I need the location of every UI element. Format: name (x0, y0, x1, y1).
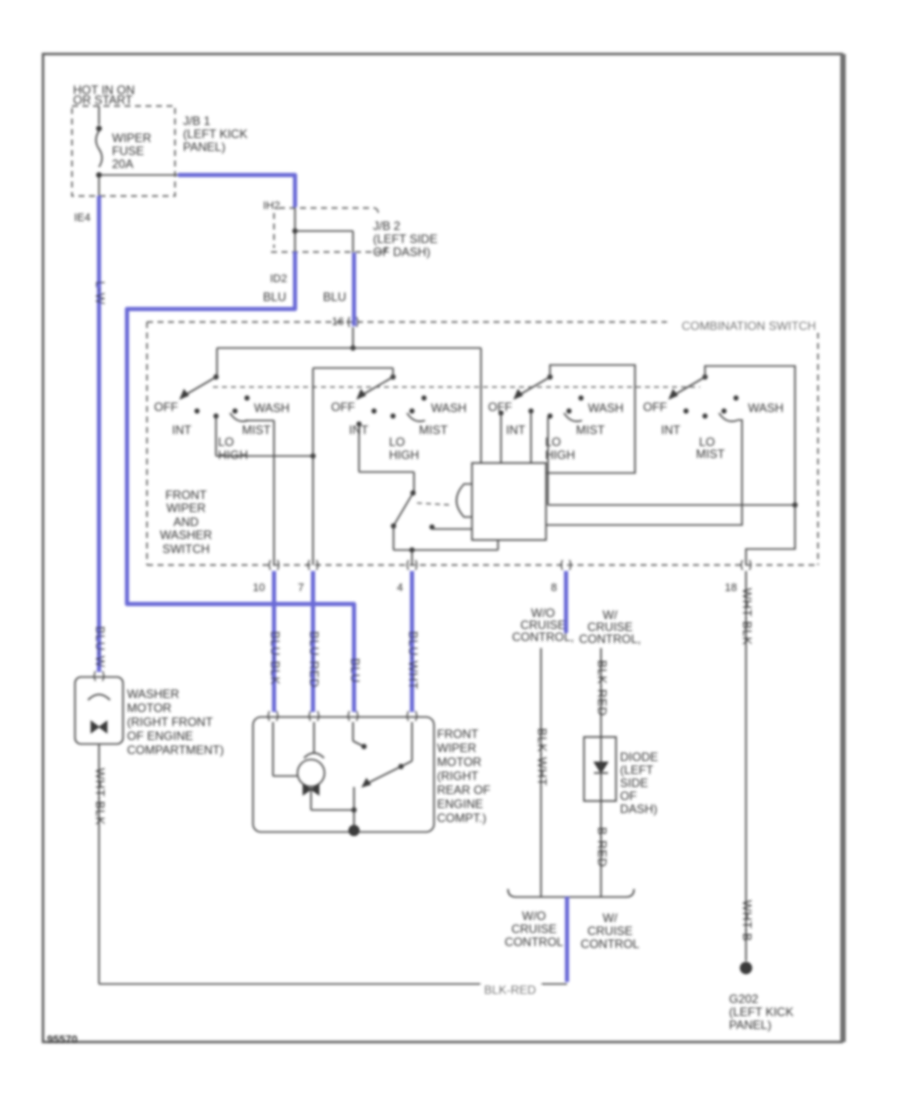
svg-text:4: 4 (397, 582, 403, 594)
svg-text:OF DASH): OF DASH) (373, 245, 430, 259)
park switch arm (366, 767, 401, 785)
contact SW2 arm lower (356, 421, 361, 426)
svg-text:BLU-BLK: BLU-BLK (268, 631, 282, 685)
svg-text:10: 10 (253, 582, 265, 594)
wash wiper arc SW4 washer gang (719, 413, 737, 421)
washer motor box (75, 677, 123, 744)
svg-text:8: 8 (551, 582, 557, 594)
svg-text:OF ENGINE: OF ENGINE (127, 729, 193, 743)
node pivot SW4 washer gang (702, 374, 707, 379)
wire BLU J/B2 to wiper motor +2 (127, 252, 354, 712)
svg-text:B-RED: B-RED (595, 827, 609, 867)
dashed actuator link (417, 503, 452, 505)
wire diode to merge (600, 801, 602, 897)
contact INT SW1 wiper gang 1 (194, 408, 199, 413)
wire BLU pin10 to washer pump contact (272, 571, 276, 712)
wire SW3 to relay top b (530, 411, 532, 463)
svg-text:OR START: OR START (73, 93, 133, 107)
wire +1 vertical to pin 7 (312, 368, 314, 565)
svg-text:18: 18 (725, 582, 737, 594)
svg-text:(LEFT KICK: (LEFT KICK (183, 127, 247, 141)
intermittent wiper relay box (472, 463, 546, 540)
connector wiper motor pin (348, 711, 358, 721)
svg-text:ENGINE: ENGINE (437, 797, 483, 811)
svg-text:WASHER: WASHER (160, 528, 213, 542)
svg-text:WASH: WASH (254, 401, 290, 415)
wire SW4 wash to relay (546, 420, 742, 525)
svg-text:L-W: L-W (93, 281, 107, 305)
combination switch dashed box (147, 321, 818, 323)
node feed (350, 345, 355, 350)
contact INT SW2 wiper gang 2 (371, 408, 376, 413)
connector wiper motor pin (268, 711, 278, 721)
svg-text:CRUISE: CRUISE (587, 924, 632, 938)
contact HIGH SW1 wiper gang 1 (232, 408, 237, 413)
wire SW3 to relay top a (500, 413, 502, 463)
svg-text:HIGH: HIGH (389, 448, 419, 462)
wire BLU pin8 stub (564, 571, 568, 633)
washer pump arc (88, 695, 110, 701)
svg-text:HIGH: HIGH (545, 448, 575, 462)
wire feed link to SW2 (313, 367, 393, 369)
svg-text:LO: LO (218, 435, 234, 449)
svg-text:MOTOR: MOTOR (127, 701, 172, 715)
front wiper motor box (253, 717, 434, 832)
switch arm SW3 wiper gang 3 (520, 377, 550, 395)
svg-text:MOTOR: MOTOR (437, 755, 482, 769)
svg-text:BLK-WHT: BLK-WHT (535, 728, 549, 786)
wire SW3 center contact to washer feed bus (547, 417, 549, 505)
node relay switch pivot (410, 490, 415, 495)
svg-text:CONTROL: CONTROL (581, 937, 640, 951)
svg-text:PANEL): PANEL) (729, 1018, 771, 1032)
svg-text:IH2: IH2 (263, 200, 280, 212)
svg-text:7: 7 (298, 582, 304, 594)
wire LO to +1 line (216, 455, 313, 457)
node motor ground junction (351, 807, 356, 812)
svg-text:BLK-RED: BLK-RED (595, 660, 609, 716)
svg-text:J/B 1: J/B 1 (183, 114, 211, 128)
svg-text:SWITCH: SWITCH (162, 542, 209, 556)
svg-text:FRONT: FRONT (165, 488, 207, 502)
wiper motor internals (272, 722, 274, 776)
svg-text:LO: LO (389, 435, 405, 449)
contact LO SW1 wiper gang 1 (213, 413, 218, 418)
svg-text:CONTROL,: CONTROL, (512, 630, 574, 644)
svg-text:COMPT.): COMPT.) (437, 811, 486, 825)
svg-text:MIST: MIST (696, 447, 725, 461)
wire w/o cruise path (540, 648, 542, 897)
node park pivot (398, 764, 403, 769)
arrowhead SW1 wiper gang 1 (180, 390, 189, 400)
wire pin18 to ground (745, 571, 747, 961)
svg-text:ID2: ID2 (270, 273, 287, 285)
svg-text:CRUISE: CRUISE (511, 922, 556, 936)
contact HIGH SW3 wiper gang 3 (566, 408, 571, 413)
relay cam symbol (457, 484, 473, 517)
svg-text:95570: 95570 (47, 1034, 78, 1046)
svg-text:DASH): DASH) (620, 802, 657, 816)
wire w/ cruise to diode (600, 648, 602, 737)
connector washer motor (94, 671, 104, 681)
svg-text:BLU: BLU (348, 658, 362, 683)
connector wiper motor pin (309, 711, 319, 721)
wire BLU J/B2 to combination switch 16 (352, 253, 356, 326)
arrowhead SW2 wiper gang 2 (357, 390, 366, 400)
svg-text:WIPER: WIPER (437, 741, 477, 755)
node pin 4 tap (409, 547, 414, 552)
svg-text:J/B 2: J/B 2 (373, 219, 401, 233)
diode box (584, 737, 616, 801)
svg-text:(LEFT: (LEFT (620, 763, 654, 777)
wire SW1 wash arc to pin 10 (245, 420, 274, 422)
svg-text:COMPARTMENT): COMPARTMENT) (127, 743, 224, 757)
svg-text:INT: INT (661, 423, 681, 437)
merge bracket (508, 889, 634, 897)
node pivot SW3 wiper gang 3 (547, 374, 552, 379)
svg-text:REAR OF: REAR OF (437, 783, 490, 797)
connector pin 8 (561, 560, 571, 570)
wire washer motor return (98, 744, 100, 984)
wire BLU pin7 to wiper motor +1 (311, 571, 315, 712)
connector wiper motor pin (407, 711, 417, 721)
svg-text:20A: 20A (112, 157, 133, 171)
node pivot SW2 wiper gang 2 (390, 374, 395, 379)
contact LO SW3 wiper gang 3 (547, 413, 552, 418)
wire washer return bottom run (99, 983, 567, 985)
svg-text:(LEFT KICK: (LEFT KICK (729, 1005, 793, 1019)
park arm arrowhead (362, 779, 371, 788)
junction block 2 dashed lines (279, 207, 375, 209)
contact WASH SW4 washer gang (733, 395, 738, 400)
node J/B2 split (292, 228, 297, 233)
J/B2 internal wires (294, 207, 296, 252)
svg-text:AND: AND (173, 515, 199, 529)
ground case terminal (348, 825, 359, 836)
svg-text:16: 16 (332, 316, 344, 328)
contact relay switch (391, 523, 396, 528)
svg-text:IE4: IE4 (74, 212, 91, 224)
svg-text:OFF: OFF (154, 400, 178, 414)
contact WASH SW3 wiper gang 3 (578, 395, 583, 400)
svg-text:OFF: OFF (643, 400, 667, 414)
svg-text:HIGH: HIGH (218, 448, 248, 462)
arrowhead SW3 wiper gang 3 (514, 390, 523, 400)
svg-text:INT: INT (506, 423, 526, 437)
switch arm SW4 washer gang (675, 377, 705, 395)
wire SW4 feed loop (705, 366, 795, 565)
arrowhead SW4 washer gang (669, 390, 678, 400)
contact INT SW4 washer gang (683, 408, 688, 413)
svg-text:WIPER: WIPER (112, 131, 152, 145)
wire fuse to J/B1 right side (102, 174, 178, 176)
svg-text:MIST: MIST (419, 423, 448, 437)
svg-text:MIST: MIST (576, 423, 605, 437)
relay switch arm (394, 493, 413, 525)
svg-text:WASH: WASH (588, 401, 624, 415)
switch arm SW1 wiper gang 1 (186, 377, 216, 395)
contact relay fixed (429, 524, 434, 529)
motor symbol (303, 784, 319, 795)
wash wiper arc SW1 wiper gang 1 (230, 413, 248, 421)
svg-text:WASH: WASH (431, 401, 467, 415)
contact LO SW4 washer gang (702, 413, 707, 418)
svg-text:INT: INT (172, 423, 192, 437)
wire feed to relay (480, 348, 482, 463)
wire BLU merged washer return (565, 897, 569, 982)
svg-text:BLU-WHT: BLU-WHT (406, 631, 420, 690)
wire relay switch to relay (394, 549, 499, 551)
svg-text:BLU-W: BLU-W (93, 626, 107, 668)
page frame border (43, 54, 842, 1042)
connector terminal 16 (348, 317, 358, 327)
wire BLU fuse to washer motor (97, 196, 101, 672)
washer motor symbol (91, 721, 107, 733)
diode symbol (594, 762, 608, 773)
wire BLU pin4 to wiper motor S (410, 571, 414, 712)
connector pin 10 (269, 560, 279, 570)
svg-text:(RIGHT FRONT: (RIGHT FRONT (127, 715, 213, 729)
contact INT SW3 wiper gang 3 (528, 408, 533, 413)
wire SW1 LO contact down (215, 416, 217, 456)
node washer feed (792, 502, 797, 507)
svg-text:CONTROL: CONTROL (505, 935, 564, 949)
wire feed to switch 1 (216, 348, 218, 377)
svg-text:OFF: OFF (331, 400, 355, 414)
svg-text:WHT-BLK: WHT-BLK (740, 588, 754, 646)
svg-text:SIDE: SIDE (620, 776, 648, 790)
ground G202 (740, 962, 752, 974)
connector pin 18 (741, 560, 751, 570)
svg-text:OF: OF (620, 789, 637, 803)
svg-text:FUSE: FUSE (112, 144, 144, 158)
svg-text:G202: G202 (729, 992, 759, 1006)
svg-text:(RIGHT: (RIGHT (437, 769, 479, 783)
svg-text:BLU: BLU (263, 290, 286, 304)
svg-text:WASHER: WASHER (127, 687, 180, 701)
contact WASH SW2 wiper gang 2 (421, 395, 426, 400)
svg-text:W/: W/ (603, 911, 618, 925)
motor M circle (298, 760, 325, 787)
svg-text:(LEFT SIDE: (LEFT SIDE (373, 232, 437, 246)
motor brush arc (304, 753, 324, 758)
switch arm SW2 wiper gang 2 (363, 377, 393, 395)
svg-text:WASH: WASH (748, 401, 784, 415)
node +1 junction (310, 453, 315, 458)
wash wiper arc SW3 wiper gang 3 (564, 413, 582, 421)
svg-text:WHT-BLK: WHT-BLK (93, 768, 107, 826)
wash wiper arc SW2 wiper gang 2 (407, 413, 425, 421)
node pivot SW1 wiper gang 1 (213, 374, 218, 379)
svg-text:DIODE: DIODE (620, 750, 658, 764)
svg-text:COMBINATION SWITCH: COMBINATION SWITCH (682, 319, 816, 333)
svg-text:WHT-B: WHT-B (740, 900, 754, 942)
wiper fuse 20A (98, 106, 100, 125)
svg-text:FRONT: FRONT (437, 727, 479, 741)
svg-text:MIST: MIST (242, 423, 271, 437)
ganged switch dashed link (213, 386, 700, 388)
svg-text:PANEL): PANEL) (183, 140, 225, 154)
svg-text:CONTROL,: CONTROL, (579, 632, 641, 646)
wire feed bus (217, 347, 481, 349)
wire to pin 4 (411, 550, 413, 565)
wire SW2 to relay switch (358, 424, 360, 472)
contact LO SW2 wiper gang 2 (390, 413, 395, 418)
wire BLU fuse output to J/B2 (178, 175, 295, 207)
svg-text:BLK-RED: BLK-RED (484, 983, 536, 997)
svg-text:WIPER: WIPER (166, 501, 206, 515)
junction block 1 dashed box (72, 106, 175, 196)
contact WASH SW1 wiper gang 1 (244, 395, 249, 400)
wire SW3 feed loop (546, 365, 635, 473)
svg-text:W/O: W/O (522, 909, 546, 923)
svg-text:BLU: BLU (323, 290, 346, 304)
connector pin 7 (308, 560, 318, 570)
svg-text:BLU-RED: BLU-RED (307, 631, 321, 688)
contact HIGH SW2 wiper gang 2 (409, 408, 414, 413)
contact HIGH SW4 washer gang (721, 408, 726, 413)
connector pin 4 (407, 560, 417, 570)
contact park a (361, 744, 366, 749)
contact SW3 down1 (498, 410, 503, 415)
